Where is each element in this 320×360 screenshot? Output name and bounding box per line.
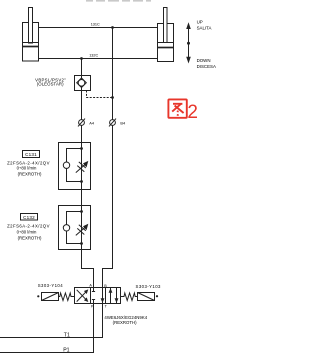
svg-text:S303-Y104: S303-Y104	[38, 283, 63, 288]
node N1 (131C / B-line junction)	[111, 26, 114, 29]
svg-text:A: A	[89, 284, 92, 288]
svg-text:Z2FS6A-2-4X/2QV: Z2FS6A-2-4X/2QV	[7, 223, 50, 228]
throttle check valve C132	[59, 206, 91, 250]
svg-text:131C: 131C	[91, 22, 100, 26]
svg-text:(REXROTH): (REXROTH)	[113, 320, 137, 325]
svg-text:0÷80 l/min: 0÷80 l/min	[17, 230, 37, 235]
right position: parallel arrows	[110, 288, 112, 304]
svg-text:DOWN: DOWN	[197, 58, 211, 63]
spring right	[121, 293, 138, 301]
adjust arrow	[76, 164, 85, 172]
throttle check valve C131	[59, 143, 91, 190]
left position: crossed arrows	[77, 291, 87, 301]
wire 131C	[39, 27, 158, 29]
cropped top text	[86, 0, 151, 2]
pilot operated check valve U1 VBPSL	[75, 76, 91, 91]
svg-text:T1: T1	[64, 333, 70, 339]
wire P1	[0, 304, 94, 353]
label C131	[7, 151, 50, 177]
wire T1	[0, 304, 103, 338]
check valve	[63, 162, 69, 168]
svg-text:Z2FS6A-2-4X/2QV: Z2FS6A-2-4X/2QV	[7, 160, 50, 165]
svg-text:A4: A4	[89, 121, 95, 126]
solenoid Y103	[138, 293, 159, 301]
test point B4	[109, 119, 116, 127]
wire A-line (from 132C down to valve port A)	[82, 59, 94, 288]
check valve	[63, 225, 69, 231]
pilot wire (dashed)	[87, 91, 113, 98]
figure label 图2 (red)	[168, 99, 186, 117]
branch wire	[67, 149, 82, 182]
wire B-line (from 131C down to valve port B)	[103, 28, 113, 288]
svg-text:0÷80 l/min: 0÷80 l/min	[17, 166, 37, 171]
svg-text:(REXROTH): (REXROTH)	[18, 235, 42, 240]
svg-text:SALITA: SALITA	[197, 26, 212, 31]
centre position: A,P blocked, B to T	[93, 288, 95, 292]
throttle strokes	[79, 162, 86, 168]
svg-text:(REXROTH): (REXROTH)	[18, 172, 42, 177]
svg-text:DISCESA: DISCESA	[197, 64, 216, 69]
svg-text:B4: B4	[120, 121, 126, 126]
adjust arrow	[76, 227, 85, 235]
branch wire	[67, 212, 82, 244]
label C132	[7, 214, 50, 241]
up/down motion arrow	[186, 22, 191, 63]
svg-text:T: T	[105, 305, 108, 309]
svg-text:(OLEOSTAR): (OLEOSTAR)	[37, 82, 64, 87]
cylinder CYL2 (right)	[158, 8, 174, 62]
svg-text:132C: 132C	[89, 53, 98, 57]
node dots	[80, 210, 83, 213]
spring left	[59, 293, 75, 301]
svg-text:C132: C132	[23, 215, 35, 220]
svg-text:UP: UP	[197, 19, 203, 24]
test point A4	[78, 119, 85, 127]
node N2 (132C / A-line junction)	[80, 57, 83, 60]
svg-text:P1: P1	[63, 347, 69, 353]
solenoid Y104	[37, 293, 58, 301]
svg-text:C131: C131	[25, 152, 37, 157]
throttle strokes	[79, 225, 86, 231]
cylinder CYL1 (left)	[23, 8, 39, 62]
svg-text:2: 2	[187, 102, 198, 123]
directional valve V1 body	[75, 288, 121, 304]
svg-text:S303-Y103: S303-Y103	[136, 284, 161, 289]
node N3 (pilot / B-line junction)	[111, 96, 114, 99]
node dots	[80, 147, 83, 150]
wire 132C	[39, 58, 158, 60]
